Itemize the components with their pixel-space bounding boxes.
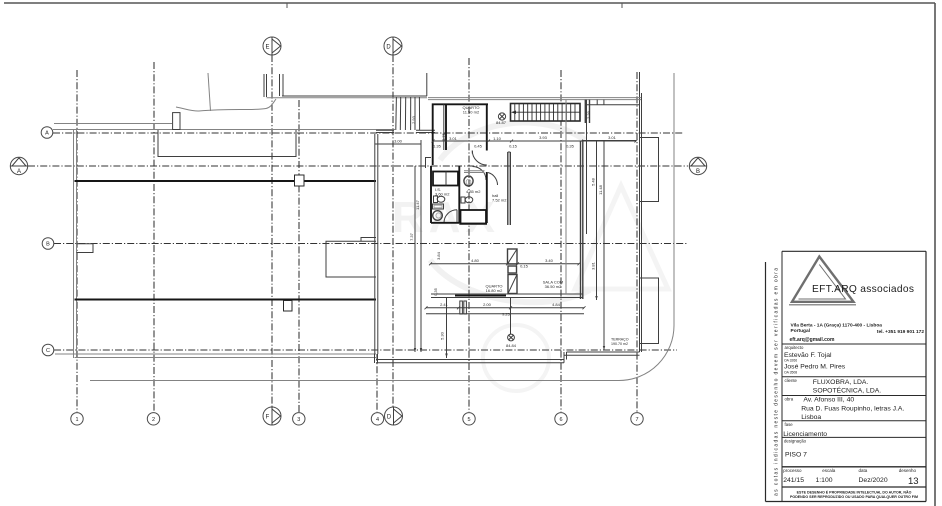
- svg-text:0,15: 0,15: [509, 144, 518, 149]
- west dimension verticals: [414, 166, 416, 352]
- svg-text:5.48: 5.48: [591, 177, 596, 186]
- grid line 4: [376, 354, 378, 412]
- svg-text:1:100: 1:100: [816, 477, 833, 484]
- bottom dimension rows: [425, 302, 586, 317]
- svg-text:B: B: [46, 242, 50, 248]
- roof line: [282, 95, 427, 97]
- svg-text:241/15: 241/15: [783, 477, 804, 484]
- svg-text:3.00: 3.00: [394, 139, 403, 144]
- quarto room top-left: thick outline: [433, 104, 488, 165]
- east dimension verticals: [586, 100, 588, 234]
- svg-text:escala: escala: [822, 468, 836, 473]
- outer boundary bottom + rounded corner + right: [90, 73, 674, 381]
- shower tray: [461, 210, 487, 224]
- vertical dim with arrow to terrace wall: [446, 298, 448, 358]
- mid wall: [458, 166, 460, 223]
- leader/top edge lines from circle A: [54, 123, 172, 125]
- right bath door arc top: [473, 167, 487, 181]
- level marker 84.84: [510, 298, 512, 334]
- grid circles bottom 1-7: [71, 413, 643, 425]
- outer top wall: [428, 97, 641, 99]
- svg-text:obra: obra: [785, 397, 794, 402]
- chimney rect: [173, 113, 180, 130]
- top opening + arc: [464, 170, 485, 172]
- bathrooms block: [426, 158, 508, 224]
- svg-text:4: 4: [376, 417, 379, 423]
- svg-text:7: 7: [635, 417, 638, 423]
- door arc bottom: [444, 210, 457, 223]
- apartment bottom wall: [431, 293, 583, 295]
- svg-text:0,35: 0,35: [566, 144, 575, 149]
- grid horizontal dash-dot lines: [28, 133, 688, 350]
- svg-text:3.01: 3.01: [608, 135, 617, 140]
- svg-text:Av. Afonso III, 40: Av. Afonso III, 40: [803, 396, 854, 403]
- mid dimension row: [429, 251, 581, 296]
- svg-text:E: E: [265, 45, 269, 51]
- terrace south wall: [55, 353, 376, 355]
- svg-text:as cotas indicadas neste desen: as cotas indicadas neste desenho devem s…: [774, 268, 780, 496]
- svg-text:11.50 m2: 11.50 m2: [463, 109, 480, 114]
- svg-text:36.50 m2: 36.50 m2: [545, 284, 562, 289]
- quarto door arc: [472, 151, 487, 166]
- svg-text:PISO 7: PISO 7: [785, 451, 807, 458]
- svg-text:2.39: 2.39: [586, 110, 591, 119]
- svg-text:4.80: 4.80: [471, 258, 480, 263]
- toilet 1: [434, 196, 438, 203]
- balcony 1: [640, 138, 659, 202]
- section marker F bottom: [263, 407, 281, 425]
- wall right of stairs: [584, 100, 586, 123]
- right wall: [486, 172, 488, 223]
- svg-text:9.25: 9.25: [502, 312, 511, 317]
- svg-text:0,15: 0,15: [520, 264, 529, 269]
- svg-text:2: 2: [152, 417, 155, 423]
- svg-text:F: F: [266, 415, 270, 421]
- hall/living divider: [507, 152, 509, 225]
- logo triangle: [792, 257, 854, 302]
- balcony 2: [640, 278, 659, 344]
- double verticals upper: [263, 74, 265, 97]
- top-right dim line: [582, 140, 636, 142]
- svg-text:Portugal: Portugal: [791, 328, 810, 334]
- svg-text:1.35: 1.35: [433, 144, 442, 149]
- svg-text:16.80 m2: 16.80 m2: [486, 288, 503, 293]
- svg-text:C: C: [46, 348, 50, 354]
- svg-text:4.84: 4.84: [552, 302, 561, 307]
- svg-text:OA 3266: OA 3266: [784, 359, 797, 363]
- counter: [433, 204, 444, 209]
- svg-text:processo: processo: [783, 468, 802, 473]
- top right rooms under wall: [585, 104, 639, 106]
- svg-text:13: 13: [908, 476, 919, 487]
- svg-text:B: B: [696, 169, 700, 175]
- svg-text:84.84: 84.84: [506, 343, 517, 348]
- thick wall near C: [75, 299, 377, 301]
- section marker E top: [263, 37, 281, 55]
- grid circles left A B C: [41, 127, 54, 356]
- svg-text:11.47: 11.47: [415, 199, 420, 209]
- svg-text:data: data: [859, 468, 868, 473]
- thick wall at grid between A-A and B: [75, 180, 377, 182]
- apartment: [375, 98, 641, 354]
- borders: [782, 250, 926, 252]
- svg-text:4.85 m2: 4.85 m2: [466, 189, 481, 194]
- svg-text:0,35: 0,35: [433, 287, 438, 296]
- grid line 3: [298, 100, 300, 412]
- svg-text:D: D: [387, 415, 392, 421]
- svg-text:11.48: 11.48: [598, 184, 603, 194]
- grid line 1: [76, 70, 78, 412]
- svg-text:3: 3: [297, 417, 300, 423]
- svg-text:2.00: 2.00: [483, 302, 492, 307]
- building right edge double: [639, 72, 641, 352]
- section marker D bottom: [385, 407, 403, 425]
- svg-text:5: 5: [467, 417, 470, 423]
- site outline: [53, 72, 674, 381]
- svg-text:3.81: 3.81: [591, 261, 596, 270]
- wall segs at y130 right of parapet: [376, 129, 394, 131]
- grid line 2: [153, 62, 155, 412]
- svg-text:PODENDO SER REPRODUZIDO OU USA: PODENDO SER REPRODUZIDO OU USADO PARA QU…: [790, 495, 918, 499]
- svg-text:6: 6: [559, 417, 562, 423]
- svg-text:eft.arq@gmail.com: eft.arq@gmail.com: [790, 337, 835, 343]
- svg-text:Rua D. Fuas Roupinho, letras J: Rua D. Fuas Roupinho, letras J.A.: [801, 405, 904, 412]
- grid line 7: [636, 72, 638, 412]
- exterior stair fan: [396, 97, 420, 130]
- section marker A left: [10, 157, 27, 175]
- svg-text:fase: fase: [785, 422, 794, 427]
- svg-text:A: A: [17, 169, 21, 175]
- svg-text:ESTE DESENHO É PROPRIEDADE INT: ESTE DESENHO É PROPRIEDADE INTELECTUAL D…: [797, 489, 912, 494]
- grid line 5: [468, 58, 470, 412]
- vertical at x427: [426, 73, 428, 96]
- svg-text:1: 1: [75, 417, 78, 423]
- svg-text:arquitecto: arquitecto: [785, 345, 804, 350]
- svg-text:7.37: 7.37: [409, 232, 414, 241]
- grid line C: [54, 349, 677, 351]
- grid line B: [54, 243, 687, 245]
- svg-text:5.30: 5.30: [440, 331, 445, 340]
- svg-text:3.93: 3.93: [539, 135, 548, 140]
- svg-text:D: D: [386, 45, 391, 51]
- svg-text:OA 3508: OA 3508: [784, 370, 797, 374]
- svg-text:3.84: 3.84: [436, 251, 441, 260]
- B step notch: [77, 244, 94, 253]
- svg-text:designação: designação: [784, 438, 807, 443]
- apartment west wall double: [374, 134, 376, 354]
- svg-text:cliente: cliente: [785, 378, 798, 383]
- svg-text:EFT.ARQ associados: EFT.ARQ associados: [812, 284, 914, 295]
- shaft stack between quarto and sala: [508, 249, 518, 294]
- svg-text:A: A: [45, 131, 49, 137]
- svg-text:3.40: 3.40: [545, 258, 554, 263]
- section marker B right: [689, 157, 706, 175]
- dimension row under grid A: [375, 135, 638, 149]
- wavy site line top-left: [176, 99, 276, 111]
- terrace door bars: [460, 301, 463, 314]
- step rectangle at grid B right side: [326, 241, 376, 277]
- section line E-F: [271, 55, 273, 407]
- svg-text:2.41: 2.41: [440, 302, 449, 307]
- svg-text:3.01: 3.01: [449, 136, 458, 141]
- grid line A: [53, 132, 684, 134]
- small closet protrusion: [426, 158, 432, 169]
- svg-text:0,45: 0,45: [474, 144, 483, 149]
- grid vertical dash-dot lines: [77, 55, 637, 412]
- svg-text:1.10: 1.10: [493, 136, 502, 141]
- faint watermark: [392, 123, 668, 391]
- sala east wall + apartment east wall: [565, 100, 567, 294]
- left block: [74, 130, 377, 358]
- svg-text:Vila Berta - 1A (Graça) 1170-4: Vila Berta - 1A (Graça) 1170-400 - Lisbo…: [791, 323, 883, 329]
- svg-text:Dez/2020: Dez/2020: [859, 477, 888, 484]
- slanted line: [208, 73, 211, 111]
- svg-text:84.87: 84.87: [496, 120, 507, 125]
- titleblock: [766, 251, 927, 501]
- svg-text:7.52 m2: 7.52 m2: [492, 198, 507, 203]
- left edge wall double: [73, 130, 75, 358]
- grid line 6: [560, 70, 562, 412]
- washbasin: [433, 211, 443, 221]
- svg-text:2.93: 2.93: [411, 115, 416, 124]
- svg-text:desenho: desenho: [899, 468, 917, 473]
- bathtub: [433, 172, 458, 186]
- right bath sink: [464, 176, 473, 186]
- svg-text:Lisboa: Lisboa: [801, 414, 821, 421]
- section line D-D: [392, 55, 394, 407]
- toilet 2: [461, 197, 465, 203]
- staircase: [511, 104, 581, 122]
- section marker D top: [384, 37, 402, 55]
- parapet rectangle: [158, 130, 296, 157]
- svg-text:FLUXOBRA, LDA.: FLUXOBRA, LDA.: [813, 379, 869, 386]
- svg-text:190.70 m2: 190.70 m2: [611, 342, 628, 346]
- svg-text:SOPOTÉCNICA, LDA.: SOPOTÉCNICA, LDA.: [813, 386, 881, 395]
- svg-text:3.75: 3.75: [441, 132, 446, 141]
- section line A-B: [28, 165, 688, 167]
- bottom wall of bathrooms: [431, 222, 459, 224]
- elevator symbol 84.87: [498, 113, 505, 120]
- svg-text:tel. +351 919 901 172: tel. +351 919 901 172: [877, 329, 924, 335]
